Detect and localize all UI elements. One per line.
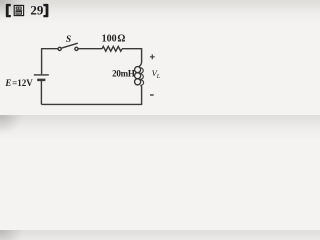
- svg-text:E=12V: E=12V: [4, 78, 33, 88]
- svg-text:29: 29: [30, 3, 44, 18]
- svg-text:100Ω: 100Ω: [102, 34, 126, 45]
- svg-text:20mH: 20mH: [112, 68, 135, 78]
- svg-text:S: S: [66, 35, 71, 45]
- svg-text:VL: VL: [152, 68, 161, 80]
